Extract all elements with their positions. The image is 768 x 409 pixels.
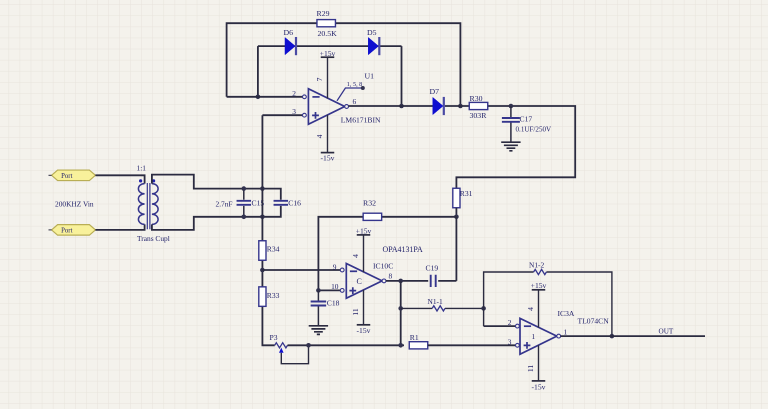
port Port (top) xyxy=(52,170,96,181)
wire P3 right to R1 xyxy=(288,344,405,346)
node C15 top rail junction xyxy=(242,186,247,191)
svg-text:R31: R31 xyxy=(460,189,473,198)
transformer secondary winding xyxy=(152,184,158,225)
svg-text:R33: R33 xyxy=(267,291,280,300)
svg-text:9: 9 xyxy=(333,262,337,271)
wire top port to transformer xyxy=(95,175,144,183)
svg-text:R34: R34 xyxy=(267,245,280,254)
svg-text:8: 8 xyxy=(389,271,393,280)
wire U1 output to D7 R30 xyxy=(349,106,576,189)
svg-text:10: 10 xyxy=(331,282,339,291)
potentiometer P3 xyxy=(275,343,288,348)
svg-text:P3: P3 xyxy=(270,333,278,342)
svg-text:+15v: +15v xyxy=(320,49,336,58)
svg-text:11: 11 xyxy=(351,308,360,316)
svg-text:11: 11 xyxy=(526,365,535,373)
svg-text:4: 4 xyxy=(526,307,535,311)
capacitor C18 xyxy=(317,290,319,325)
ground for C18 xyxy=(309,326,328,335)
svg-text:1:1: 1:1 xyxy=(137,163,147,172)
svg-text:-15v: -15v xyxy=(532,382,546,391)
wire N1-2 feedback loop xyxy=(484,272,612,336)
svg-text:D7: D7 xyxy=(430,87,440,96)
capacitor C17 xyxy=(510,106,512,142)
wire output OUT xyxy=(561,335,705,337)
wire center divider chain xyxy=(262,115,274,345)
node C15 bottom rail junction xyxy=(242,215,247,220)
svg-text:R29: R29 xyxy=(317,9,330,18)
svg-text:20.5K: 20.5K xyxy=(318,29,338,38)
op-amp IC3A TL074CN xyxy=(520,318,557,354)
wire N1-1 run xyxy=(401,307,484,309)
node junction pin10/C18/R32 xyxy=(316,288,321,293)
op-amp U1 LM6171BIN xyxy=(308,89,344,125)
svg-text:N1-2: N1-2 xyxy=(529,260,544,269)
transformer polarity dots xyxy=(139,179,142,182)
wire P3 wiper loop xyxy=(281,345,308,363)
svg-text:3: 3 xyxy=(292,107,296,116)
capacitor C19 xyxy=(431,275,436,287)
svg-text:-15v: -15v xyxy=(321,154,335,163)
svg-text:303R: 303R xyxy=(470,111,488,120)
wire R1 to pin3 xyxy=(428,344,516,346)
svg-text:7: 7 xyxy=(315,77,324,81)
wire U1 pin2 input xyxy=(227,96,303,98)
transformer Trans Cupl primary winding xyxy=(138,184,144,225)
transformer core xyxy=(147,183,150,229)
diode D6 xyxy=(285,38,295,55)
svg-text:C16: C16 xyxy=(288,199,301,208)
svg-text:OPA4131PA: OPA4131PA xyxy=(383,245,424,254)
resistor N1-1 xyxy=(432,306,445,311)
resistor R32 xyxy=(363,213,382,220)
node pin3 net top rail junction xyxy=(260,186,265,191)
svg-text:N1-1: N1-1 xyxy=(428,297,443,306)
resistor R29 xyxy=(317,20,336,27)
IC3A +15v supply xyxy=(538,290,540,328)
resistor R30 xyxy=(469,102,488,109)
svg-text:2: 2 xyxy=(292,89,296,98)
capacitor C16 xyxy=(274,201,289,205)
svg-text:1, 5, 8: 1, 5, 8 xyxy=(347,81,362,88)
resistor N1-2 xyxy=(534,269,547,274)
svg-text:U1: U1 xyxy=(365,72,375,81)
svg-text:C18: C18 xyxy=(327,299,340,308)
svg-text:R30: R30 xyxy=(470,94,483,103)
resistor R34 xyxy=(259,241,266,261)
IC3A -15v supply xyxy=(538,345,540,381)
svg-text:OUT: OUT xyxy=(659,327,674,335)
wire U1 pin3 input xyxy=(262,114,302,116)
svg-text:R32: R32 xyxy=(363,199,376,208)
U1 pins 1,5,8 stub xyxy=(337,88,362,101)
node junction R31/R32/C19 xyxy=(454,215,459,220)
node junction N1-1 to feedback vertical xyxy=(481,306,486,311)
svg-text:+15v: +15v xyxy=(531,281,547,290)
wire R31 node down to C19 xyxy=(455,217,457,281)
svg-text:R1: R1 xyxy=(410,333,419,342)
svg-text:TL074CN: TL074CN xyxy=(578,316,610,325)
svg-text:Port: Port xyxy=(61,228,72,235)
IC10C +15v supply xyxy=(363,235,365,272)
resistor R33 xyxy=(259,287,266,307)
wire secondary top to cap rail xyxy=(152,175,281,200)
U1 +15v supply xyxy=(327,57,329,98)
node divider bottom rail junction xyxy=(260,215,265,220)
IC10C -15v supply xyxy=(363,290,365,325)
svg-text:Trans Cupl: Trans Cupl xyxy=(137,234,170,243)
wire pin2 input xyxy=(484,325,516,327)
svg-text:IC10C: IC10C xyxy=(373,261,393,270)
diode D7 xyxy=(433,97,443,114)
node junction feedback to output xyxy=(610,334,615,339)
svg-text:4: 4 xyxy=(315,134,324,138)
svg-text:Port: Port xyxy=(61,173,72,180)
U1 -15v supply xyxy=(327,115,329,153)
svg-text:-15v: -15v xyxy=(357,326,371,335)
wire secondary bottom to cap rail xyxy=(152,206,281,230)
svg-text:6: 6 xyxy=(353,97,357,106)
svg-text:3: 3 xyxy=(508,337,512,346)
node junction C17 tap xyxy=(509,104,514,109)
wire pin9 input xyxy=(262,269,340,271)
svg-text:C19: C19 xyxy=(426,263,439,272)
svg-text:1: 1 xyxy=(532,332,536,341)
svg-text:C: C xyxy=(357,277,362,286)
wire R32 feedback run xyxy=(318,217,456,291)
op-amp IC10C OPA4131PA xyxy=(346,264,382,299)
wire C19 right to R31 node xyxy=(438,280,456,282)
wire pin10 input xyxy=(318,289,340,291)
svg-text:200KHZ Vin: 200KHZ Vin xyxy=(55,200,94,209)
ground for C17 xyxy=(501,142,520,151)
svg-text:IC3A: IC3A xyxy=(558,309,575,318)
svg-text:2: 2 xyxy=(508,318,512,327)
resistor R31 xyxy=(453,188,460,208)
svg-text:1: 1 xyxy=(564,327,568,336)
wire IC10C output to C19 xyxy=(386,280,428,282)
wire pin8 down to N1-1 and R1 xyxy=(400,281,402,345)
node junction pin8 vertical to R1 wire xyxy=(398,343,403,348)
capacitor C15 xyxy=(243,189,245,217)
diode D5 xyxy=(368,38,378,55)
svg-text:C17: C17 xyxy=(520,115,533,124)
svg-text:D5: D5 xyxy=(367,28,377,37)
svg-text:+15v: +15v xyxy=(356,226,372,235)
svg-text:0.1UF/250V: 0.1UF/250V xyxy=(516,126,553,134)
wire R29 feedback loop xyxy=(227,23,461,106)
node junction N1-1 tap xyxy=(398,306,403,311)
node junction R34/R33 to pin9 xyxy=(260,268,265,273)
port Port (bottom) xyxy=(52,225,96,236)
wire bottom port to transformer xyxy=(95,224,144,230)
wire D6-D5 limiter loop xyxy=(258,46,402,106)
svg-text:LM6171BIN: LM6171BIN xyxy=(341,115,381,124)
wire R31 to R32 node xyxy=(455,208,457,217)
node junction D6 loop to pin2 wire xyxy=(256,95,261,100)
resistor R1 xyxy=(409,342,428,349)
node junction D5 loop to output wire xyxy=(399,104,404,109)
node junction pin8 xyxy=(398,279,403,284)
svg-text:D6: D6 xyxy=(284,28,294,37)
node junction P3 wiper xyxy=(306,343,311,348)
svg-text:2.7nF: 2.7nF xyxy=(216,200,233,209)
svg-text:4: 4 xyxy=(351,254,360,258)
node junction R29 loop to output wire xyxy=(458,104,463,109)
